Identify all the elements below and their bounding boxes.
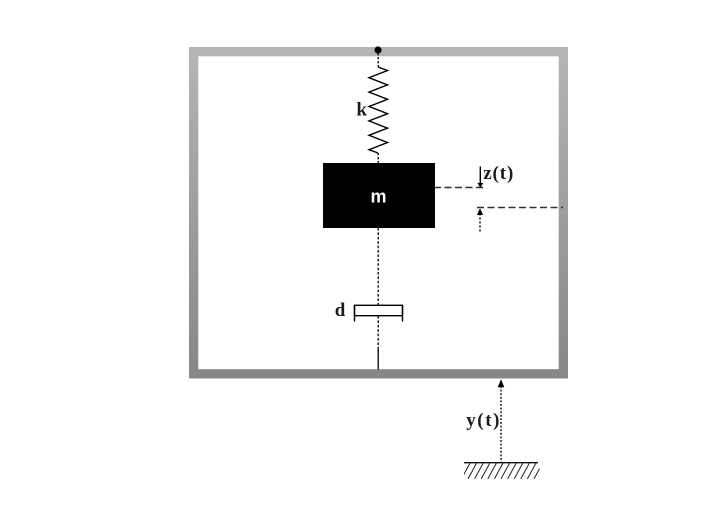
attachment dot at frame top	[374, 46, 381, 53]
svg-text:z(t): z(t)	[483, 163, 514, 184]
damper d	[355, 305, 403, 322]
mass m (black block)	[323, 163, 435, 228]
svg-text:m: m	[371, 187, 387, 207]
frame (gray housing box)	[189, 47, 568, 379]
dashed line from mass to z(t) arrow	[434, 187, 485, 189]
spring k (zigzag)	[369, 67, 388, 153]
wire: mass to damper (dashed rod)	[377, 228, 379, 305]
arrow z(t) (down)	[477, 167, 483, 188]
arrow (up, dotted) under second reference line	[477, 208, 483, 233]
ground line	[464, 462, 538, 464]
wire: damper to frame bottom (dashed then solid)	[377, 316, 379, 370]
svg-text:k: k	[356, 100, 367, 121]
arrow y(t) (up, from ground to frame)	[498, 379, 505, 462]
wire: dot to spring top	[377, 53, 379, 67]
second dashed reference line (through frame right border)	[477, 207, 563, 209]
svg-text:y(t): y(t)	[466, 410, 501, 431]
svg-text:d: d	[335, 300, 346, 321]
ground hatching	[455, 463, 550, 479]
wire: spring bottom to mass	[377, 153, 379, 164]
